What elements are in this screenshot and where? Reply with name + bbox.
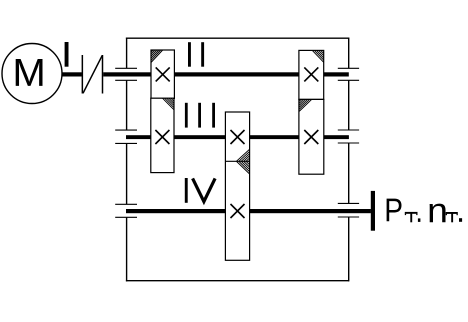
hatch A lower top-right xyxy=(163,98,175,110)
housing right wall xyxy=(348,38,350,69)
coupling half 2 xyxy=(102,55,104,94)
output label n xyxy=(430,204,446,223)
coupling slash xyxy=(83,55,102,93)
block C divider xyxy=(225,160,249,162)
shaft III wire (B to right wall) xyxy=(324,135,349,139)
bearing left wall shaft I xyxy=(115,67,137,69)
shaft III wire (A to C) xyxy=(174,135,226,139)
shaft I wire (coupling to gear block A) xyxy=(103,72,151,76)
output flange xyxy=(371,191,375,231)
bearing right wall shaft IV xyxy=(338,202,359,204)
gear block A upper (on shaft II) xyxy=(151,50,174,98)
shaft II label xyxy=(188,42,191,66)
output label P xyxy=(387,199,402,222)
shaft IV wire (C to output flange) xyxy=(250,209,371,213)
shaft IV wire (left wall to C) xyxy=(126,209,226,213)
motor letter M xyxy=(16,59,43,86)
housing top wall xyxy=(126,37,349,39)
motor M1 circle xyxy=(2,44,62,104)
output label subscript t1 xyxy=(405,212,418,222)
hatch B upper top-right xyxy=(312,50,323,62)
gear block B upper (on shaft II) xyxy=(299,50,324,99)
gear cross B upper xyxy=(304,67,318,81)
bearing left wall shaft III xyxy=(115,129,137,131)
shaft III wire (C to B) xyxy=(250,135,300,139)
gear block A lower (on shaft III) xyxy=(151,98,174,172)
gear cross C upper xyxy=(231,130,245,144)
bearing right wall shaft III xyxy=(338,129,359,131)
output label dot2 xyxy=(459,218,462,222)
hatch B lower top-left xyxy=(299,100,312,112)
shaft I wire (motor to coupling) xyxy=(62,72,82,76)
gear cross A lower xyxy=(155,130,169,144)
output label subscript t2 xyxy=(446,212,458,222)
gear block C (on shafts III and IV) xyxy=(225,112,249,260)
hatch C upper xyxy=(237,149,250,161)
shaft III wire (left wall to A) xyxy=(126,135,151,139)
gear cross B lower xyxy=(304,130,318,144)
coupling half 1 xyxy=(81,55,83,94)
shaft IV label xyxy=(185,178,188,203)
hatch A upper top-left xyxy=(151,50,163,63)
shaft III label xyxy=(185,103,188,128)
shaft I label xyxy=(65,42,69,67)
shaft II wire (A to B) xyxy=(174,72,299,76)
gear cross C lower xyxy=(231,204,245,218)
housing bottom wall xyxy=(126,280,349,282)
output label dot1 xyxy=(418,218,421,222)
gear cross A upper xyxy=(156,67,170,81)
shaft II wire (B to right wall) xyxy=(324,72,349,76)
housing left wall xyxy=(126,38,128,69)
gear block B lower (on shaft III) xyxy=(299,99,324,174)
bearing right wall shaft II xyxy=(338,67,359,69)
bearing left wall shaft IV xyxy=(115,203,137,205)
hatch C lower xyxy=(237,161,250,174)
